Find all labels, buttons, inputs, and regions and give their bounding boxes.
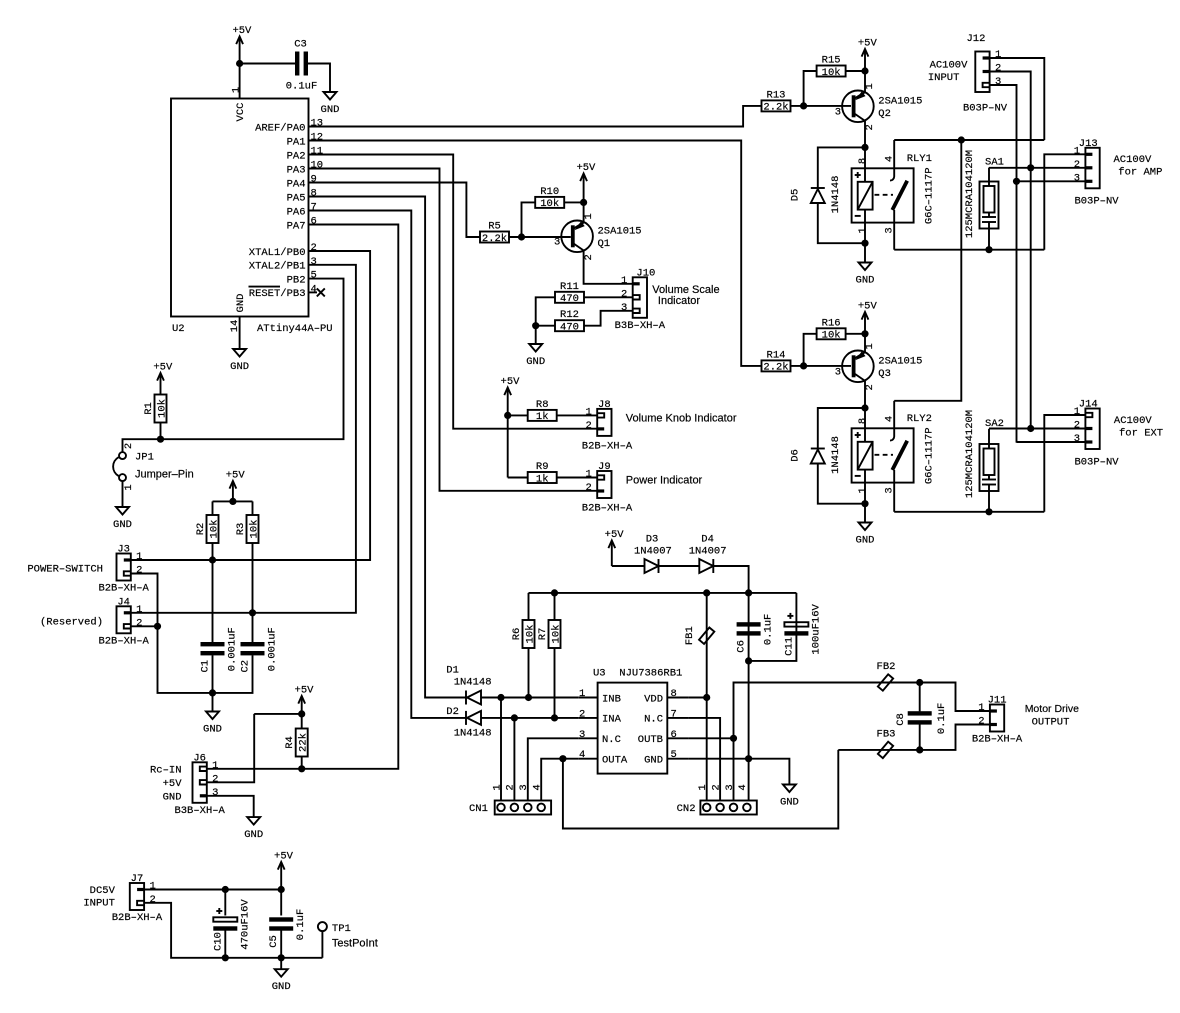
svg-text:1: 1 [136, 604, 142, 616]
wire GND rail to ground [212, 693, 214, 712]
svg-text:1: 1 [136, 551, 142, 563]
junction VDD / FB1 / CN2 pin1 [703, 694, 710, 701]
wire J13 pin2 to SA1 / J12 pin2 [989, 167, 1085, 169]
wire J14 pin2 to SA2 [989, 428, 1085, 430]
wire J13 pin1 to pin3 rail [1044, 154, 1085, 249]
svg-text:10k: 10k [822, 67, 841, 79]
svg-text:C8: C8 [895, 713, 907, 726]
wire to D5 cathode [818, 147, 865, 188]
ground at C3 [321, 92, 340, 116]
svg-text:Motor Drive: Motor Drive [1025, 703, 1079, 715]
wire PB2 to R1 / JP1 [123, 279, 344, 453]
connector J3 [98, 544, 149, 595]
svg-text:+5V: +5V [153, 362, 173, 374]
svg-text:1: 1 [1074, 145, 1080, 157]
resistor R16 [817, 317, 846, 341]
svg-text:+5V: +5V [232, 25, 252, 37]
svg-text:2.2k: 2.2k [763, 102, 788, 114]
svg-text:+5V: +5V [501, 376, 521, 388]
junction collector / D6 [861, 404, 868, 411]
diode D3 1N4007 [645, 559, 659, 573]
junction C5 top / +5V [278, 886, 285, 893]
svg-text:10k: 10k [822, 330, 841, 342]
svg-text:B2B–XH–A: B2B–XH–A [972, 734, 1023, 746]
svg-text:B2B–XH–A: B2B–XH–A [98, 583, 149, 595]
wire PA2 to J8 pin2 [309, 155, 598, 429]
svg-text:for AMP: for AMP [1118, 167, 1162, 179]
svg-text:OUTA: OUTA [602, 755, 628, 767]
wire J14 pin3 [1017, 441, 1086, 443]
wire C8 bottom [919, 724, 921, 750]
svg-text:J12: J12 [966, 33, 985, 45]
junction OUTA branch [559, 755, 566, 762]
svg-text:R12: R12 [560, 309, 579, 321]
resistor R5 [480, 221, 509, 245]
junction CN1 pin1 / INB [497, 694, 504, 701]
connector J11 [972, 695, 1023, 746]
wire R10 right to emitter net [564, 201, 583, 203]
capacitor C1 [200, 627, 239, 672]
wire emitter up Q3 [864, 334, 866, 353]
surge absorber SA2 [980, 418, 1004, 512]
diode D1 1N4148 [466, 691, 481, 705]
wire R2 to J3 pin1 net [212, 543, 214, 560]
wire C6 column top [748, 593, 750, 661]
svg-text:8: 8 [857, 418, 869, 424]
svg-text:10k: 10k [524, 625, 536, 644]
U2 pin 2 XTAL1/PB0 label [249, 242, 317, 259]
svg-text:1: 1 [978, 702, 984, 714]
junction +5V / R2 / R3 [229, 498, 236, 505]
svg-text:PA4: PA4 [287, 178, 306, 190]
resistor R11 [555, 281, 584, 305]
svg-text:1N4148: 1N4148 [454, 677, 492, 689]
wire R11 to J10 pin2 [584, 296, 633, 298]
capacitor C11 [783, 604, 822, 656]
svg-text:1N4148: 1N4148 [830, 176, 842, 214]
svg-text:14: 14 [229, 320, 241, 333]
wire to R3 top [252, 501, 254, 515]
svg-text:PA2: PA2 [287, 150, 306, 162]
svg-text:B03P–NV: B03P–NV [1074, 457, 1119, 469]
wire [988, 222, 990, 250]
junction R7 top [551, 589, 558, 596]
svg-text:2: 2 [995, 63, 1001, 75]
svg-text:5: 5 [311, 270, 317, 282]
resistor R9 [528, 461, 557, 485]
svg-text:1: 1 [621, 275, 627, 287]
svg-text:J10: J10 [636, 267, 655, 279]
svg-text:B2B–XH–A: B2B–XH–A [98, 635, 149, 647]
svg-text:2: 2 [212, 773, 218, 785]
wire +5V column down to R9 [507, 415, 509, 477]
svg-text:J4: J4 [117, 596, 130, 608]
svg-text:D4: D4 [701, 534, 714, 546]
wire Q3 collector to RLY2 coil [864, 381, 866, 409]
svg-text:GND: GND [856, 275, 875, 287]
svg-text:PA1: PA1 [287, 136, 306, 148]
capacitor C3 [286, 39, 318, 93]
svg-text:GND: GND [780, 797, 799, 809]
svg-text:R16: R16 [822, 317, 841, 329]
svg-text:2: 2 [586, 482, 592, 494]
junction OUTB / CN2 pin3 / FB2 [730, 735, 737, 742]
svg-text:12: 12 [311, 132, 324, 144]
svg-text:INPUT: INPUT [928, 72, 960, 84]
+5V supply at U2 VCC [232, 25, 252, 64]
wire [988, 485, 990, 512]
wire R12 to J10 pin3 [584, 311, 633, 326]
svg-text:9: 9 [311, 174, 317, 186]
svg-text:Indicator: Indicator [658, 295, 701, 307]
U3 pin 2 INA [578, 708, 621, 725]
svg-text:C3: C3 [294, 39, 307, 51]
svg-text:GND: GND [644, 755, 663, 767]
svg-text:C10: C10 [212, 932, 224, 951]
U3 pin 4 OUTA [578, 749, 628, 766]
ground at JP1 [113, 507, 132, 531]
wire +5V to D3 [612, 565, 645, 567]
svg-text:2.2k: 2.2k [482, 233, 507, 245]
svg-text:B03P–NV: B03P–NV [1074, 196, 1119, 208]
diode D6 1N4148 [811, 449, 825, 464]
resistor R14 [762, 349, 791, 373]
svg-text:2: 2 [136, 565, 142, 577]
svg-text:PA6: PA6 [287, 206, 306, 218]
svg-text:R10: R10 [540, 186, 559, 198]
wire J14 pin1 to pin3 rail [1044, 415, 1085, 512]
wire +5V to R8 [508, 414, 528, 416]
svg-text:+5V: +5V [274, 851, 294, 863]
svg-text:0.001uF: 0.001uF [267, 627, 279, 671]
svg-text:(Reserved): (Reserved) [40, 617, 103, 629]
svg-text:U3: U3 [593, 668, 606, 680]
wire [893, 140, 895, 177]
U2 pin 14 GND wire [229, 317, 241, 350]
svg-text:6: 6 [311, 216, 317, 228]
wire D5 anode to coil bottom [818, 203, 865, 243]
svg-text:D6: D6 [790, 449, 802, 462]
svg-text:7: 7 [671, 708, 677, 720]
svg-text:R15: R15 [822, 55, 841, 67]
svg-text:B3B–XH–A: B3B–XH–A [615, 320, 666, 332]
svg-text:470: 470 [560, 322, 579, 334]
diode D5 1N4148 [811, 188, 825, 203]
svg-text:Rc–IN: Rc–IN [150, 764, 182, 776]
resistor R10 [535, 186, 564, 210]
wire VDD stub to FB1 node [688, 697, 707, 699]
wire [667, 697, 688, 699]
wire to C8 top [919, 683, 921, 712]
wire PA1 to R14 [309, 141, 762, 366]
svg-text:1: 1 [857, 487, 869, 493]
svg-text:2SA1015: 2SA1015 [878, 355, 922, 367]
diode D4 1N4007 [699, 559, 713, 573]
svg-text:R3: R3 [235, 523, 247, 536]
svg-text:XTAL1/PB0: XTAL1/PB0 [249, 247, 306, 259]
svg-text:J13: J13 [1079, 138, 1098, 150]
wire CN1 pin4 to U3 OUTA [541, 759, 578, 801]
wire CN1 pin3 to U3 pin3 [528, 738, 579, 800]
U2 pin 1 VCC wire [231, 64, 243, 99]
junction collector / D5 [861, 144, 868, 151]
svg-text:INB: INB [602, 693, 621, 705]
junction R2 / J3 pin1 / C1 [209, 556, 216, 563]
svg-text:AC100V: AC100V [930, 60, 969, 72]
wire CN2 pin4 down [748, 759, 750, 801]
svg-text:2: 2 [149, 894, 155, 906]
wire [864, 147, 866, 181]
wire J3 pin2 to GND rail [131, 574, 213, 693]
svg-text:FB1: FB1 [684, 626, 696, 645]
wire coil to ground [864, 243, 866, 262]
U3 pin 3 N.C [578, 729, 621, 746]
junction C5 bottom / GND [278, 954, 285, 961]
svg-text:CN1: CN1 [469, 803, 488, 815]
svg-text:OUTPUT: OUTPUT [1032, 716, 1070, 728]
svg-text:B2B–XH–A: B2B–XH–A [112, 912, 163, 924]
junction J4 pin2 / GND column [154, 623, 161, 630]
junction GND / CN2 pin4 [745, 755, 752, 762]
svg-text:J14: J14 [1079, 399, 1098, 411]
svg-text:AC100V: AC100V [1114, 154, 1153, 166]
connector J4 [98, 596, 149, 647]
svg-text:7: 7 [311, 202, 317, 214]
+5V supply at D3 [605, 529, 625, 566]
U2 pin 4 RESET/PB3 label [249, 283, 317, 300]
wire coil to ground [864, 504, 866, 523]
svg-text:1k: 1k [536, 473, 549, 485]
svg-text:10k: 10k [156, 399, 168, 418]
junction FB3 / C8 bottom [916, 746, 923, 753]
svg-text:8: 8 [671, 688, 677, 700]
svg-text:3: 3 [1074, 433, 1080, 445]
wire CN2 pin1 up to VDD node [706, 698, 708, 801]
IC U3 NJU7386RB1 body [593, 668, 682, 774]
wire FB2 to J11 pin1 [920, 683, 990, 712]
wire [239, 64, 241, 99]
svg-text:GND: GND [856, 535, 875, 547]
wire R7 to INA net [554, 648, 556, 718]
junction R14 / R16 [800, 362, 807, 369]
svg-text:J11: J11 [988, 695, 1007, 707]
capacitor C8 [908, 711, 932, 724]
svg-text:+5V: +5V [576, 162, 596, 174]
svg-text:NJU7386RB1: NJU7386RB1 [619, 668, 682, 680]
wire R15 to emitter net [846, 70, 865, 72]
wire CN2 pin3 down [733, 738, 735, 800]
svg-text:AREF/PA0: AREF/PA0 [255, 122, 305, 134]
svg-text:0.1uF: 0.1uF [936, 703, 948, 735]
svg-text:Q1: Q1 [598, 238, 611, 250]
svg-text:2: 2 [1074, 420, 1080, 432]
test point TP1 [318, 922, 378, 949]
connector J12 [966, 33, 1001, 92]
connector J9 [586, 461, 612, 498]
U2 pin 13 AREF/PA0 label [255, 118, 323, 135]
svg-text:4: 4 [737, 784, 749, 790]
wire [578, 758, 597, 760]
wire TP1 to GND rail [321, 931, 323, 958]
+5V supply at Q2 [858, 38, 878, 72]
ground at J7 [272, 969, 291, 993]
+5V supply at R1 [153, 362, 173, 382]
svg-text:3: 3 [621, 302, 627, 314]
svg-text:Power Indicator: Power Indicator [626, 474, 703, 486]
svg-text:GND: GND [244, 829, 263, 841]
wire OUTA to FB3 [563, 750, 838, 829]
svg-text:D1: D1 [446, 665, 459, 677]
junction R5 / R10 [518, 233, 525, 240]
svg-text:1N4007: 1N4007 [689, 546, 727, 558]
svg-text:J6: J6 [193, 752, 206, 764]
wire to C1 top [212, 560, 214, 642]
svg-text:4: 4 [579, 749, 585, 761]
wire bus to R7 [554, 593, 556, 620]
svg-text:1: 1 [123, 484, 135, 490]
svg-text:C11: C11 [783, 637, 795, 656]
wire [864, 210, 866, 244]
wire CN1 pin2 up [513, 718, 515, 801]
junction C6 / C11 bottom [745, 657, 752, 664]
svg-text:N.C: N.C [602, 734, 621, 746]
svg-text:1k: 1k [536, 411, 549, 423]
svg-text:GND: GND [163, 791, 182, 803]
svg-text:CN2: CN2 [677, 803, 696, 815]
svg-text:2SA1015: 2SA1015 [878, 95, 922, 107]
svg-text:1N4148: 1N4148 [454, 728, 492, 740]
svg-text:R5: R5 [488, 221, 501, 233]
svg-text:B2B–XH–A: B2B–XH–A [582, 441, 633, 453]
wire [667, 758, 688, 760]
svg-text:FB2: FB2 [877, 661, 896, 673]
wire +5V to R4 node [301, 703, 303, 714]
svg-text:5: 5 [671, 749, 677, 761]
svg-text:R6: R6 [511, 628, 523, 641]
wire RLY1 pin3 rail [894, 249, 1044, 251]
wire [893, 210, 895, 250]
svg-text:22k: 22k [298, 733, 310, 752]
wire to D6 cathode [818, 408, 865, 449]
wire OUTB [688, 737, 733, 739]
svg-text:R11: R11 [560, 281, 579, 293]
wire emitter up [583, 202, 585, 222]
svg-text:2.2k: 2.2k [763, 362, 788, 374]
wire to U3 ground symbol [749, 759, 790, 785]
wire [667, 737, 688, 739]
svg-text:R4: R4 [284, 736, 296, 749]
junction C10 bottom [222, 954, 229, 961]
wire J13 pin3 [1017, 180, 1086, 182]
resistor R13 [762, 89, 791, 113]
svg-text:TestPoInt: TestPoInt [332, 938, 378, 950]
svg-text:J3: J3 [117, 544, 130, 556]
svg-text:INPUT: INPUT [83, 898, 115, 910]
svg-text:3: 3 [1074, 172, 1080, 184]
svg-text:XTAL2/PB1: XTAL2/PB1 [249, 261, 306, 273]
svg-text:J8: J8 [598, 399, 611, 411]
ground at RLY1 [856, 263, 875, 287]
ground at RLY2 [856, 523, 875, 547]
+5V supply at J7 [274, 851, 294, 890]
svg-text:1: 1 [231, 87, 243, 93]
svg-text:1N4148: 1N4148 [830, 436, 842, 474]
junction CN1 pin2 / INA [511, 714, 518, 721]
svg-text:1: 1 [579, 688, 585, 700]
junction +5V / R16 / Q3 emitter [861, 330, 868, 337]
wire R3 to J4 pin1 net [252, 543, 254, 613]
svg-text:JP1: JP1 [135, 452, 154, 464]
svg-text:3: 3 [884, 227, 896, 233]
svg-text:INA: INA [602, 714, 622, 726]
svg-text:+5V: +5V [858, 38, 878, 50]
transistor Q2 [842, 91, 874, 123]
svg-text:RESET/PB3: RESET/PB3 [249, 288, 306, 300]
junction D4 / C6 [745, 589, 752, 596]
junction FB1 top [703, 589, 710, 596]
wire to R4 top [301, 714, 303, 729]
resistor R12 [555, 309, 584, 333]
svg-text:R2: R2 [195, 523, 207, 536]
junction J12 pin2 column end [1027, 425, 1034, 432]
wire PA0 to R13 [309, 106, 762, 127]
wire emitter up Q2 [864, 71, 866, 93]
svg-text:4: 4 [884, 416, 896, 422]
wire R6 to INB net [528, 648, 530, 698]
svg-text:G6C–1117P: G6C–1117P [924, 167, 936, 224]
junction coil / D6 anode [861, 500, 868, 507]
svg-text:2: 2 [123, 443, 135, 449]
wire to ground [280, 958, 282, 969]
wire R8 to J8 pin1 [557, 414, 598, 416]
wire [988, 168, 990, 186]
svg-text:R8: R8 [536, 399, 549, 411]
svg-text:GND: GND [203, 724, 222, 736]
wire C10 to GND rail [224, 931, 226, 958]
resistor R3 [235, 515, 260, 543]
wire U3 GND [688, 758, 749, 760]
svg-text:2SA1015: 2SA1015 [598, 225, 642, 237]
wire Q2 collector to RLY1 coil [864, 121, 866, 148]
wire R10 left to base net [522, 202, 536, 237]
wire VCC to C3 [240, 63, 298, 65]
svg-text:2: 2 [311, 242, 317, 254]
svg-text:B3B–XH–A: B3B–XH–A [174, 805, 225, 817]
svg-text:2: 2 [583, 254, 595, 260]
svg-text:1N4007: 1N4007 [634, 546, 672, 558]
connector J14 [1074, 399, 1100, 450]
ground at U2 [230, 349, 249, 373]
wire R15 left to base net [804, 71, 817, 106]
jumper JP1 [113, 443, 194, 491]
junction SA1 bottom [985, 246, 992, 253]
U2 pin 8 PA5 label [287, 188, 317, 205]
wire bus to R6 [528, 593, 530, 620]
junction R13 / R15 [800, 102, 807, 109]
junction +5V / R4 [298, 710, 305, 717]
wire PA4 to R5 [309, 183, 480, 238]
svg-text:Volume Knob Indicator: Volume Knob Indicator [626, 412, 737, 424]
junction +5V / R8 [504, 412, 511, 419]
wire +5V rail to J6 pin2 branch [254, 713, 302, 715]
svg-text:10k: 10k [248, 520, 260, 539]
junction J12 pin3 column [1013, 178, 1020, 185]
U2 pin 12 PA1 label [287, 132, 324, 149]
wire [864, 470, 866, 504]
svg-text:ATtiny44A–PU: ATtiny44A–PU [257, 323, 333, 335]
wire CN1 pin1 up [500, 698, 502, 801]
U3 pin 1 INB [578, 688, 621, 705]
